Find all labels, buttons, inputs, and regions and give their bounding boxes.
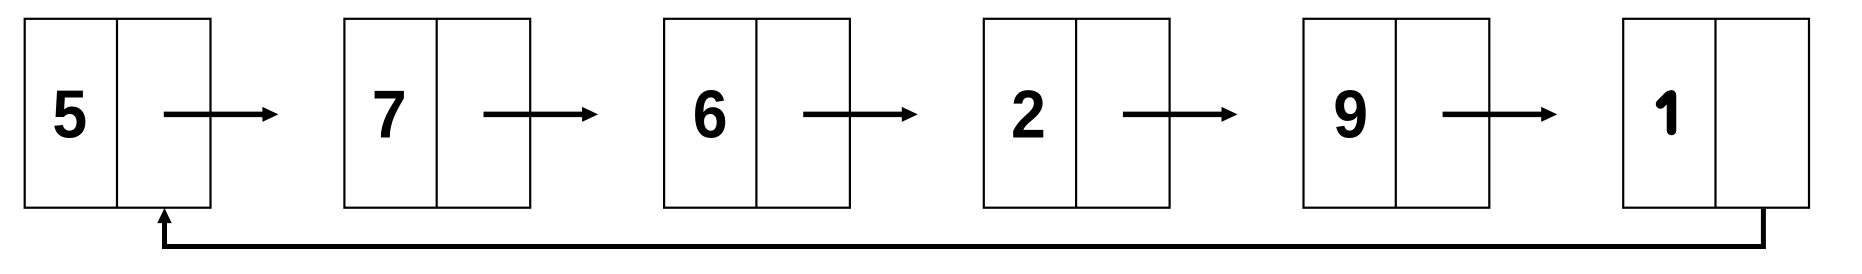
svg-text:6: 6 <box>693 76 728 152</box>
value label 1 <box>1661 95 1672 131</box>
arrowhead into node 1 <box>157 208 171 223</box>
node 1 box (value 5) <box>25 19 211 208</box>
arrow node3->node4 <box>803 107 918 122</box>
node 6 box (value 1) <box>1623 19 1809 208</box>
svg-text:9: 9 <box>1333 76 1368 152</box>
svg-text:5: 5 <box>52 76 87 152</box>
svg-text:2: 2 <box>1011 76 1046 152</box>
node 5 box (value 9) <box>1304 19 1490 208</box>
node 3 box (value 6) <box>664 19 850 208</box>
node 2 box (value 7) <box>344 19 530 208</box>
arrow node5->node6 <box>1443 107 1558 122</box>
node 4 box (value 2) <box>984 19 1170 208</box>
arrow node4->node5 <box>1123 107 1238 122</box>
svg-text:7: 7 <box>372 76 407 152</box>
wire loop back node6->node1 <box>165 209 1764 247</box>
arrow node1->node2 <box>164 107 279 122</box>
arrow node2->node3 <box>484 107 599 122</box>
